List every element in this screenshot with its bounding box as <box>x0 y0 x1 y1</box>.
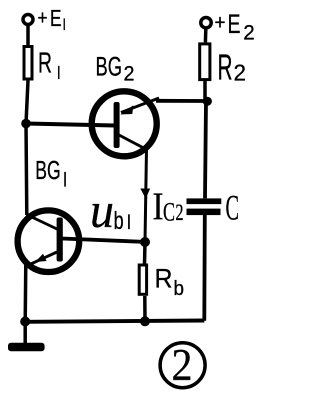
wire R1 to node A <box>26 81 28 124</box>
current arrow IC2 <box>140 189 150 199</box>
svg-text:C: C <box>226 188 240 228</box>
transistor Q2 emitter arrowhead (PNP, points to base) <box>120 105 133 114</box>
svg-text:I: I <box>63 15 67 34</box>
wire terminal1 to R1 <box>26 25 30 46</box>
svg-text:2: 2 <box>234 59 247 85</box>
ground <box>8 343 45 352</box>
bottom wire <box>25 321 204 322</box>
svg-text:b: b <box>114 207 124 235</box>
node B junction <box>203 97 212 106</box>
label +E1 <box>38 5 67 34</box>
transistor Q1 collector line <box>27 215 59 230</box>
label R2 <box>218 47 247 88</box>
svg-text:R: R <box>38 48 52 80</box>
svg-text:I: I <box>153 185 164 228</box>
svg-text:BG: BG <box>96 51 123 81</box>
resistor R1 <box>24 47 32 80</box>
node E junction (bottom-left) <box>20 317 30 327</box>
transistor Q1 (BG1) circle <box>18 210 80 272</box>
label BG2 <box>96 51 135 85</box>
svg-text:R: R <box>155 263 173 293</box>
resistor Rb <box>139 265 146 294</box>
wire Q1 emitter to bottom rail <box>23 263 27 322</box>
svg-text:BG: BG <box>35 157 61 185</box>
wire Q1 base to node C <box>62 239 145 242</box>
node D junction <box>140 316 150 326</box>
wire Q2 emitter to node B <box>156 99 207 103</box>
wire node A down to BG1 collector <box>24 124 28 216</box>
transistor Q2 base bar <box>114 102 120 148</box>
wire Rb to node D <box>143 296 147 321</box>
label Ub1 <box>90 182 131 238</box>
resistor R2 <box>200 44 210 80</box>
capacitor C top plate <box>187 198 222 204</box>
label +E2 <box>215 9 255 45</box>
svg-text:+: + <box>215 12 226 35</box>
node C junction <box>140 237 150 247</box>
wire R2 to terminal +E2 <box>204 29 208 42</box>
capacitor C bottom plate <box>187 209 221 216</box>
terminal +E2 <box>201 18 211 28</box>
wire node B down to capacitor C <box>205 101 206 198</box>
svg-text:2: 2 <box>243 22 255 45</box>
svg-text:C: C <box>163 198 175 227</box>
transistor Q2 collector line <box>118 135 147 150</box>
wire node C to Rb <box>143 242 147 264</box>
wire node A to BG2 base <box>26 124 115 126</box>
label BG1 <box>35 157 67 192</box>
label R1 <box>38 48 61 84</box>
wire Q2 collector down to node C <box>145 149 147 242</box>
transistor Q1 base bar <box>57 218 63 262</box>
svg-text:R: R <box>218 47 233 88</box>
ground stem <box>23 322 27 346</box>
svg-text:E: E <box>50 5 62 31</box>
svg-text:I: I <box>57 63 61 83</box>
label Rb <box>155 263 185 300</box>
svg-text:I: I <box>63 168 67 191</box>
figure number circle 2 <box>160 340 205 390</box>
transistor Q1 emitter line <box>28 252 58 266</box>
svg-text:2: 2 <box>124 63 135 86</box>
wire capacitor to bottom wire <box>202 215 206 321</box>
svg-text:+: + <box>38 8 48 30</box>
node A junction <box>21 119 31 129</box>
svg-text:E: E <box>228 9 241 39</box>
svg-text:I: I <box>127 211 132 234</box>
transistor Q2 (BG2) circle <box>92 91 157 156</box>
transistor Q1 emitter arrowhead (NPN, points away from base) <box>35 254 46 262</box>
terminal +E1 <box>23 15 33 25</box>
svg-text:b: b <box>174 278 185 300</box>
svg-text:2: 2 <box>175 200 183 225</box>
wire node B up to R2 <box>203 81 207 101</box>
svg-text:u: u <box>90 182 114 238</box>
svg-text:2: 2 <box>172 340 193 390</box>
transistor Q2 emitter line <box>121 98 159 113</box>
label IC2 <box>153 185 184 228</box>
